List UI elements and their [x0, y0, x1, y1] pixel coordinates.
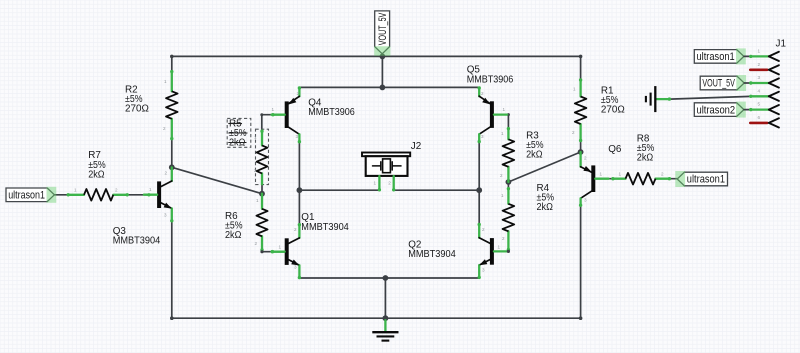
resistor R1 body: [575, 97, 587, 125]
wire diagonal Q3 to R5-R6 node: [172, 167, 262, 193]
wire right rail: [580, 205, 582, 318]
svg-text:1: 1: [600, 172, 603, 177]
transistor Q3: [144, 167, 174, 222]
transistor Q2: [478, 223, 508, 279]
connector J1 pin 4 number: [758, 88, 761, 93]
wire R2 bottom stub: [171, 139, 173, 167]
resistor R7 body: [84, 189, 113, 201]
svg-text:MMBT3904: MMBT3904: [113, 236, 161, 247]
svg-text:MMBT3904: MMBT3904: [408, 249, 456, 260]
wire diagonal R3-R4 to R1 node: [508, 152, 580, 182]
node R5-R6 junction: [259, 191, 265, 197]
transistor Q4: [271, 86, 301, 143]
ground bottom bars: [372, 332, 398, 340]
wire R1 bottom stub: [580, 141, 582, 152]
wire J1 pin5 stub: [744, 109, 751, 111]
connector J1 pin 6 unconnected stub: [750, 122, 767, 125]
resistor R6 body: [256, 209, 267, 237]
svg-text:6: 6: [758, 115, 761, 120]
svg-text:2: 2: [502, 236, 505, 241]
svg-text:3: 3: [584, 198, 587, 203]
node bridge right junction: [476, 187, 482, 193]
svg-text:4: 4: [758, 88, 761, 93]
svg-text:2kΩ: 2kΩ: [88, 169, 104, 180]
svg-text:MMBT3906: MMBT3906: [467, 75, 514, 86]
svg-text:2: 2: [163, 126, 166, 131]
resistor R6 labels: [225, 211, 243, 241]
svg-text:2kΩ: 2kΩ: [229, 138, 245, 149]
wire R4 top stub: [507, 182, 509, 188]
node top-left corner: [170, 55, 174, 59]
svg-text:1: 1: [256, 198, 259, 203]
node R2-Q3 junction: [169, 164, 175, 170]
svg-text:1: 1: [758, 48, 761, 53]
connector J1 pin 6 arrow: [769, 118, 779, 127]
wire Q5 collector drop: [478, 142, 480, 190]
svg-text:2: 2: [481, 91, 484, 96]
connector J1 pin 6 number: [758, 115, 761, 120]
resistor R5 dnp outline: [256, 129, 269, 184]
svg-text:2: 2: [388, 180, 391, 185]
resistor R7 pin numbers: [74, 187, 118, 192]
svg-text:VOUT_5V: VOUT_5V: [377, 12, 389, 45]
ground right bars: [646, 86, 655, 112]
node bottom-right corner: [579, 316, 583, 320]
ground right pin: [656, 97, 671, 100]
transistor Q5: [478, 86, 508, 143]
wire R7 to Q3 base: [128, 194, 149, 196]
svg-text:ultrason1: ultrason1: [697, 51, 735, 63]
node bottom-left corner: [170, 316, 174, 320]
wire R5 bottom stub: [261, 184, 263, 194]
svg-text:ultrason1: ultrason1: [8, 190, 45, 202]
svg-text:3: 3: [758, 75, 761, 80]
transistor Q4 pin numbers: [272, 91, 300, 139]
svg-text:2: 2: [482, 227, 485, 232]
svg-text:Q6: Q6: [608, 144, 622, 155]
node Q5 base corner: [507, 113, 510, 116]
svg-text:270Ω: 270Ω: [125, 103, 149, 114]
wire Q5 base drop: [507, 115, 509, 129]
transistor Q2 labels: [408, 239, 456, 260]
transistor Q5 pin numbers: [481, 91, 506, 139]
wire left rail: [171, 221, 173, 318]
svg-text:1: 1: [501, 131, 504, 136]
transducer J2 lid: [362, 153, 410, 157]
global label VOUT_5V at J1 pin3: [700, 75, 746, 91]
svg-text:2kΩ: 2kΩ: [526, 149, 542, 160]
svg-text:MMBT3906: MMBT3906: [308, 107, 355, 118]
svg-text:1: 1: [254, 135, 257, 140]
connector J1 pin 5 line: [749, 108, 769, 111]
wire J1 pin3 stub: [744, 82, 751, 84]
resistor R8 body: [626, 173, 656, 185]
svg-text:J2: J2: [411, 141, 421, 152]
resistor R5 pin numbers: [254, 135, 257, 173]
connector J1 pin 1 line: [749, 55, 769, 58]
wire Q4 base drop: [261, 115, 263, 131]
transistor Q1: [271, 223, 301, 279]
resistor R8 labels: [637, 133, 655, 163]
resistor R8 pin numbers: [619, 172, 665, 177]
svg-text:3: 3: [296, 134, 299, 139]
resistor R1 pins: [579, 78, 582, 142]
svg-text:2: 2: [500, 173, 503, 178]
connector J1 pin 4 line: [749, 95, 769, 98]
ground bottom pin: [384, 320, 386, 331]
resistor R4 pins: [507, 187, 510, 251]
transistor Q6: [579, 152, 609, 207]
node VOUT_5V junction: [380, 54, 386, 60]
resistor R5 pins: [260, 130, 263, 185]
resistor R5 labels: [228, 119, 247, 149]
svg-text:3: 3: [481, 134, 484, 139]
svg-text:2: 2: [584, 156, 587, 161]
svg-text:MMBT3904: MMBT3904: [301, 222, 349, 233]
connector J1 pin 3 number: [758, 75, 761, 80]
svg-text:1: 1: [501, 193, 504, 198]
wire top VOUT_5V rail: [172, 55, 581, 57]
svg-text:1: 1: [619, 172, 622, 177]
node R3-R4 junction: [506, 179, 512, 185]
svg-text:2: 2: [297, 91, 300, 96]
wire bridge right: [394, 189, 480, 191]
wire Q4 collector drop: [298, 142, 300, 190]
transducer J2 pin numbers: [374, 180, 392, 185]
node R1-Q6 junction: [578, 149, 584, 155]
svg-text:VOUT_5V: VOUT_5V: [702, 78, 735, 90]
transistor Q5 labels: [467, 65, 514, 86]
connector J1 pin 5 number: [758, 102, 761, 107]
transducer J2 pin 1: [378, 176, 381, 192]
resistor R8 pins: [611, 177, 671, 180]
svg-text:1: 1: [272, 107, 275, 112]
svg-text:1: 1: [503, 107, 506, 112]
wire ultrason1 to R7: [54, 194, 68, 196]
svg-text:2: 2: [254, 168, 257, 173]
resistor R5 label box: [227, 118, 251, 147]
transistor Q1 pin numbers: [279, 227, 298, 270]
svg-text:270Ω: 270Ω: [601, 104, 625, 115]
wire J1 pin1 stub: [744, 55, 751, 57]
resistor R2 pin numbers: [163, 79, 167, 131]
transistor Q2 pin numbers: [482, 227, 501, 273]
svg-text:1: 1: [498, 245, 501, 250]
svg-text:1: 1: [74, 187, 77, 192]
connector J1 pin 2 unconnected stub: [750, 69, 767, 72]
node bottom rail junction: [383, 315, 389, 321]
svg-text:2: 2: [572, 130, 575, 135]
connector J1 pin 5 arrow: [769, 105, 779, 114]
node Q4 base corner: [260, 113, 263, 116]
svg-text:5: 5: [758, 102, 761, 107]
wire NPN emitter rail: [299, 277, 479, 279]
connector J1 reference: [776, 39, 787, 50]
svg-text:1: 1: [573, 87, 576, 92]
transducer J2 pin 2: [392, 176, 395, 192]
global label ultrason1 left: [6, 187, 56, 203]
connector J1 pin 4 arrow: [769, 92, 779, 101]
svg-text:3: 3: [294, 265, 297, 270]
svg-text:2kΩ: 2kΩ: [225, 230, 241, 241]
resistor R7 pins: [67, 193, 129, 196]
wire R1 top stub: [580, 56, 582, 79]
power label VOUT_5V top: [374, 11, 390, 56]
resistor R3 pins: [507, 127, 510, 182]
svg-text:2: 2: [758, 62, 761, 67]
node bridge left junction: [297, 187, 303, 193]
wire R4 to Q2 base: [507, 250, 509, 252]
resistor R1 labels: [601, 85, 625, 115]
wire GND to J1 pin4: [670, 96, 751, 99]
svg-text:1: 1: [279, 245, 282, 250]
wire Q4 base run: [262, 114, 273, 116]
node NPN emitter junction: [383, 275, 389, 281]
global label ultrason1 mid-right: [675, 171, 727, 187]
global label ultrason1 at J1 pin1: [694, 48, 746, 64]
resistor R3 body: [503, 139, 515, 167]
connector J1 pin 1 number: [758, 48, 761, 53]
svg-text:2: 2: [294, 227, 297, 232]
svg-text:ultrason2: ultrason2: [697, 104, 736, 116]
node R4-Q2 corner: [507, 250, 510, 253]
svg-text:J1: J1: [776, 39, 787, 50]
resistor R2 body: [166, 91, 178, 119]
transistor Q6 pin numbers: [584, 156, 603, 203]
svg-text:1: 1: [164, 79, 167, 84]
resistor R3 labels: [526, 130, 544, 160]
transistor Q4 labels: [308, 97, 355, 118]
connector J1 pin 2 arrow: [769, 65, 779, 74]
wire R8 to label: [670, 178, 677, 180]
node PNP rail junction: [380, 85, 386, 91]
svg-text:2: 2: [165, 171, 168, 176]
connector J1 pin 2 number: [758, 62, 761, 67]
resistor R3 pin numbers: [500, 131, 504, 178]
wire R2 top stub: [171, 56, 173, 71]
resistor R2 labels: [125, 84, 149, 114]
transducer J2 crystal: [373, 159, 402, 173]
svg-text:3: 3: [482, 268, 485, 273]
wire PNP emitter rail: [299, 86, 479, 88]
transistor Q6 label: [608, 144, 622, 155]
wire bridge left: [299, 189, 379, 191]
wire bottom rail: [172, 317, 581, 319]
resistor R6 pins: [260, 194, 285, 254]
wire VOUT_5V power drop: [381, 56, 383, 87]
transistor Q1 labels: [301, 212, 349, 233]
resistor R1 pin numbers: [572, 87, 576, 136]
connector J1 pin 3 arrow: [769, 78, 779, 87]
connector J1 pin 1 arrow: [769, 52, 779, 61]
svg-text:3: 3: [164, 213, 167, 218]
resistor R6 pin numbers: [255, 198, 260, 246]
svg-text:2kΩ: 2kΩ: [637, 152, 653, 163]
resistor R7 labels: [88, 150, 106, 180]
resistor R4 body: [503, 204, 515, 232]
wire R8 stub left: [608, 178, 613, 180]
wire emitter to ground: [384, 278, 386, 318]
resistor R4 labels: [537, 183, 555, 213]
connector J1 pin 3 line: [749, 81, 769, 84]
resistor R5 body: [257, 145, 268, 173]
wire Q1 collector rise: [298, 190, 300, 224]
wire R6 to Q1 base: [262, 251, 272, 253]
transistor Q3 pin numbers: [149, 171, 168, 218]
svg-text:2: 2: [661, 172, 664, 177]
svg-text:2: 2: [115, 187, 118, 192]
svg-text:2: 2: [255, 241, 258, 246]
resistor R4 pin numbers: [501, 193, 505, 241]
transducer J2 body: [366, 156, 408, 176]
svg-text:2kΩ: 2kΩ: [537, 202, 553, 213]
wire Q2 collector rise: [478, 190, 480, 224]
node R6-Q1 corner: [260, 250, 263, 253]
transistor Q3 labels: [113, 226, 161, 247]
transducer J2 label: [411, 141, 421, 152]
global label ultrason2 at J1 pin5: [694, 102, 746, 118]
svg-text:ultrason1: ultrason1: [687, 174, 725, 186]
node top-right corner: [579, 55, 583, 59]
svg-text:1: 1: [149, 187, 152, 192]
resistor R2 pins: [170, 70, 173, 140]
svg-text:1: 1: [374, 180, 377, 185]
